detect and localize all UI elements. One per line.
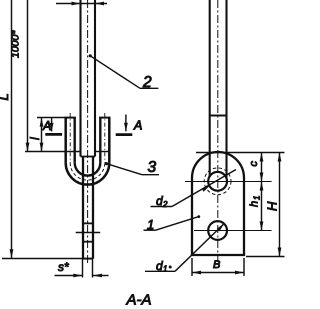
dimension line top (rod diameter): [56, 3, 107, 5]
dimension c: [261, 153, 263, 182]
U right wall top edge: [99, 117, 110, 119]
plate item1 top arc: [192, 152, 244, 178]
eye hole axis: [76, 232, 101, 234]
leader label 3: [105, 162, 108, 165]
extension line U top: [37, 117, 66, 119]
svg-text:h: h: [249, 201, 261, 207]
svg-text:s*: s*: [58, 260, 69, 274]
svg-text:3: 3: [148, 159, 157, 176]
rod item2 right edge: [94, 0, 96, 157]
svg-text:A: A: [133, 119, 142, 133]
svg-text:B: B: [213, 259, 220, 271]
svg-text:d: d: [156, 194, 163, 208]
svg-text:1: 1: [147, 217, 154, 232]
rod item2 left edge: [79, 0, 81, 157]
leader label 2: [89, 54, 92, 57]
hole d1 circle: [208, 221, 227, 240]
hole d2 circle: [208, 172, 227, 191]
plate right edge: [243, 178, 245, 255]
U outer right wall: [108, 118, 111, 163]
hole d1 horizontal centerline: [194, 230, 272, 232]
right view: rod transition line: [210, 114, 227, 116]
svg-text:2: 2: [162, 200, 168, 209]
svg-text:H: H: [265, 201, 280, 211]
svg-text:c: c: [248, 161, 260, 167]
extension line rod end left: [25, 151, 81, 153]
hole d2 horizontal centerline: [185, 181, 272, 183]
U centerline left leg: [69, 113, 71, 163]
right view: rod right edge: [225, 0, 227, 177]
right view: rod left edge: [209, 0, 211, 177]
svg-text:1: 1: [163, 265, 167, 274]
svg-text:1: 1: [253, 196, 262, 200]
U inner right wall: [99, 118, 101, 163]
shackle circle dashed: [204, 168, 231, 195]
section mark A left stroke: [45, 133, 62, 136]
section mark A right stroke: [116, 133, 133, 136]
eye hole top tick: [82, 222, 94, 224]
dimension H: [279, 153, 281, 257]
U inner bottom arc: [75, 163, 101, 176]
arrowhead L bottom: [10, 249, 14, 258]
extension line plate bottom right: [246, 256, 285, 258]
leader d2: [151, 206, 173, 208]
U inner left wall: [73, 118, 75, 163]
rod transition line: [81, 156, 96, 158]
eye plate bottom edge: [83, 258, 93, 260]
section mark A left arrow: [51, 118, 53, 132]
U left wall top edge: [65, 117, 76, 119]
arrowhead l bottom: [40, 143, 44, 152]
arrowhead top-right: [95, 2, 104, 6]
right view: rod centerline: [217, 0, 219, 262]
s* dimension: [82, 259, 84, 278]
svg-text:l: l: [28, 137, 42, 140]
U centerline right leg: [104, 113, 106, 163]
svg-text:A: A: [42, 119, 51, 133]
arrowhead top-left: [72, 2, 81, 6]
leader d1: [145, 270, 175, 272]
dimension L line: [11, 0, 13, 258]
dimension 1000* line: [27, 0, 29, 152]
eye hole bottom tick: [82, 241, 94, 243]
U shackle item3 outer left wall: [64, 118, 67, 163]
rod centerline: [87, 0, 89, 264]
dimension B: [191, 258, 193, 276]
section mark A right arrow: [125, 115, 127, 132]
extension line plate bottom: [2, 258, 83, 260]
extension line rod end right: [95, 151, 111, 153]
U outer bottom arc: [66, 163, 110, 185]
leader 1: [144, 229, 156, 231]
svg-text:2: 2: [142, 74, 152, 91]
U centerline arc: [70, 163, 105, 180]
arrowhead l top: [40, 118, 44, 127]
svg-text:L: L: [0, 93, 11, 100]
eye plate right edge: [92, 157, 94, 259]
plate bottom edge: [191, 254, 245, 256]
svg-text:A-A: A-A: [126, 292, 152, 309]
plate left edge: [191, 178, 193, 255]
arrowhead 1000 bottom: [26, 143, 30, 152]
svg-text:1000*: 1000*: [9, 30, 21, 58]
eye plate left edge: [82, 157, 84, 259]
dimension l line: [41, 118, 43, 152]
dimension h1: [261, 182, 263, 231]
svg-text:d: d: [156, 259, 163, 273]
extension line plate top: [196, 152, 285, 154]
